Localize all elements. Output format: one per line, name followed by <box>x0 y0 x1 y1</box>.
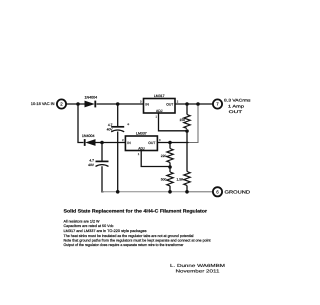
wire R1 bottom to R4 top crossing OUT2 wire <box>186 131 188 172</box>
terminal P2 input <box>57 99 66 108</box>
svg-text:OUT: OUT <box>148 141 155 145</box>
node gray top <box>196 102 200 106</box>
svg-text:1.5K: 1.5K <box>177 177 185 181</box>
wire ground terminal <box>187 191 213 193</box>
wire node A vertical <box>78 104 84 143</box>
wire LM317 OUT to output terminal <box>175 103 213 105</box>
wire LM337 ADJ elbow <box>141 151 170 167</box>
svg-text:ADJ: ADJ <box>156 109 163 113</box>
resistor R2 220 <box>161 149 173 163</box>
node C1 top <box>116 102 120 106</box>
terminal P6 ground <box>213 187 222 196</box>
svg-text:220: 220 <box>161 154 167 158</box>
svg-text:IN: IN <box>145 103 149 107</box>
wire R1 top lead <box>186 104 188 115</box>
wire C2 bottom to ground rail corner <box>102 166 104 192</box>
node A <box>76 102 80 106</box>
wire input to node A <box>66 103 84 105</box>
wire R3 bottom lead <box>169 186 171 192</box>
svg-text:Solid State Replacement for th: Solid State Replacement for the 4H4-C Fi… <box>64 209 208 214</box>
regulator U1 LM317 <box>140 94 179 118</box>
caption notes <box>64 219 211 247</box>
svg-text:1N4004: 1N4004 <box>82 134 95 138</box>
node OUT2 <box>168 141 172 145</box>
svg-text:4.7: 4.7 <box>89 159 94 163</box>
wire gray feedback to output rail <box>189 104 199 143</box>
svg-text:40V: 40V <box>88 163 95 167</box>
node R4 ground <box>185 190 189 194</box>
svg-text:ADJ: ADJ <box>138 146 145 150</box>
node C1 ground <box>116 190 120 194</box>
wire R4 bottom lead <box>186 186 188 192</box>
svg-text:Note that ground paths from th: Note that ground paths from the regulato… <box>64 239 211 243</box>
svg-text:8.3 VACrms: 8.3 VACrms <box>224 98 251 103</box>
svg-text:1N4004: 1N4004 <box>85 96 98 100</box>
node C2 top <box>100 141 104 145</box>
ground rail <box>102 191 213 193</box>
wire C1 branch <box>117 104 119 126</box>
regulator U2 LM337 <box>122 132 161 157</box>
svg-text:LM317 and LM337 are in TO-220: LM317 and LM337 are in TO-220 style pack… <box>64 229 147 233</box>
node R1 top <box>185 102 189 106</box>
svg-text:Output of the regulator does r: Output of the regulator does require a s… <box>64 243 185 247</box>
svg-text:OUT: OUT <box>166 103 173 107</box>
svg-text:November 2011: November 2011 <box>176 269 221 274</box>
wire D1 cathode to C1 node to LM317 IN <box>97 103 144 105</box>
wire C1 bottom to ground rail <box>117 132 119 192</box>
svg-text:1 Amp: 1 Amp <box>228 103 244 108</box>
capacitor C2 <box>88 159 108 167</box>
svg-text:LM317: LM317 <box>154 94 165 98</box>
svg-text:LM337: LM337 <box>136 132 147 136</box>
wire LM317 ADJ elbow to R1 bottom <box>159 113 188 131</box>
diode D2 1N4004 <box>82 134 96 146</box>
svg-text:500: 500 <box>161 177 167 181</box>
svg-text:The heat sinks must be insulat: The heat sinks must be insulated as the … <box>64 234 194 238</box>
label output <box>224 98 251 114</box>
capacitor C1 <box>107 122 130 132</box>
resistor R3 1.2K <box>161 172 173 186</box>
svg-text:Capacitors are rated at 50 Vdc: Capacitors are rated at 50 Vdc <box>64 224 114 228</box>
wire C2 branch top <box>101 143 103 161</box>
svg-text:IN: IN <box>127 141 131 145</box>
wire R2 bottom to node B <box>169 163 171 173</box>
diode D1 1N4004 <box>85 96 98 108</box>
node ADJ2 divider <box>168 165 172 169</box>
svg-text:L. Dunne WA6MBM: L. Dunne WA6MBM <box>170 263 225 268</box>
wire D2 anode to LM337 IN <box>96 142 126 144</box>
wire R2 top lead <box>169 143 171 149</box>
svg-text:All resistors are 1/2 W: All resistors are 1/2 W <box>64 219 101 223</box>
node R1 bottom ADJ <box>185 129 189 133</box>
wire LM337 OUT to node <box>157 142 188 144</box>
resistor R1 220 <box>179 115 190 129</box>
svg-text:OUT: OUT <box>229 109 243 114</box>
svg-text:40V: 40V <box>107 127 114 131</box>
svg-text:GROUND: GROUND <box>225 189 251 194</box>
svg-text:4.7: 4.7 <box>108 123 113 127</box>
node R3 ground <box>168 190 172 194</box>
resistor R4 1.2K <box>177 172 191 186</box>
svg-text:10-18 VAC IN: 10-18 VAC IN <box>31 101 55 106</box>
terminal P7 output <box>213 99 222 108</box>
svg-text:150: 150 <box>179 118 185 122</box>
